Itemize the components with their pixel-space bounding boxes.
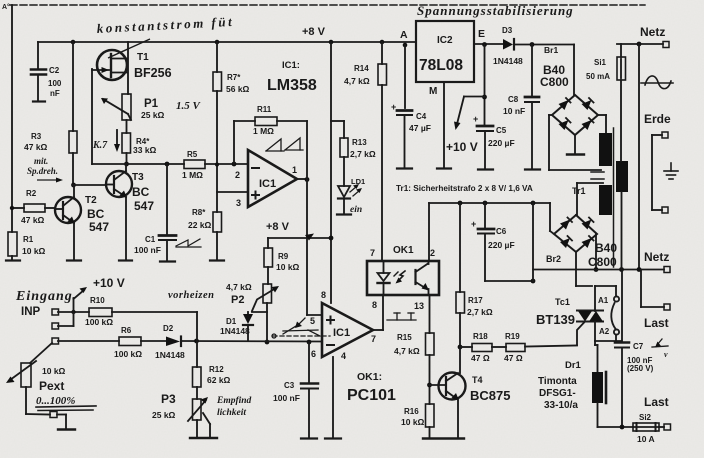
svg-text:Empfind: Empfind <box>216 396 252 406</box>
label OK1: PC101 <box>347 371 396 404</box>
wire primary to mains line <box>621 192 623 269</box>
resistor R6 100k <box>119 337 141 346</box>
label T3 BC547 <box>132 172 154 213</box>
transistor T1 <box>92 42 128 94</box>
svg-text:R10: R10 <box>90 296 105 305</box>
resistor R18 <box>460 344 506 352</box>
wire node E <box>474 42 503 47</box>
wire mid +8V arrow line <box>268 234 333 249</box>
svg-text:C5: C5 <box>496 126 507 135</box>
label IC2 78L08 <box>419 35 463 74</box>
label P2 <box>226 282 252 306</box>
svg-text:IC1:: IC1: <box>282 60 300 71</box>
svg-text:OK1: OK1 <box>393 245 414 256</box>
svg-text:0...100%: 0...100% <box>36 395 75 407</box>
wire IC1a output <box>297 178 307 180</box>
svg-text:BC: BC <box>132 185 150 199</box>
capacitor C2 <box>31 42 46 102</box>
terminal Last upper <box>664 304 670 310</box>
svg-text:E: E <box>478 28 485 40</box>
op-amp IC1b <box>322 303 373 357</box>
transistor T3 <box>106 171 132 198</box>
terminal Netz top <box>663 42 669 48</box>
label R6 <box>114 326 142 359</box>
svg-text:R1: R1 <box>23 235 34 244</box>
svg-text:K.7: K.7 <box>92 140 108 151</box>
svg-text:4,7 kΩ: 4,7 kΩ <box>344 76 370 86</box>
svg-text:1N4148: 1N4148 <box>220 326 250 336</box>
annotation AC sine symbol <box>641 76 673 89</box>
transformer core line <box>613 128 615 267</box>
svg-text:C6: C6 <box>496 227 507 236</box>
diode D3 <box>503 39 574 50</box>
label P3 <box>152 392 176 420</box>
wire T2 emitter to ground stub <box>73 223 75 259</box>
svg-text:Tr1: Sicherheitstrafo 2 x 8 V/: Tr1: Sicherheitstrafo 2 x 8 V/ 1,6 VA <box>396 184 533 193</box>
svg-text:R13: R13 <box>352 138 367 147</box>
svg-text:1: 1 <box>292 165 297 175</box>
wire T3 base <box>73 184 106 186</box>
svg-text:R9: R9 <box>278 252 289 261</box>
svg-text:BC875: BC875 <box>470 388 510 403</box>
wire mains line y=269 <box>533 267 664 272</box>
svg-text:10 kΩ: 10 kΩ <box>22 246 46 256</box>
transformer Tr1 secondary upper winding <box>599 133 612 166</box>
wire supply line corner to Br2 left <box>550 203 554 234</box>
svg-text:+: + <box>473 114 478 124</box>
annotation konstantstrom <box>96 14 234 58</box>
svg-text:220 µF: 220 µF <box>488 240 515 250</box>
svg-text:547: 547 <box>134 199 154 213</box>
svg-text:A°: A° <box>2 3 10 11</box>
svg-text:Tr1: Tr1 <box>572 186 586 196</box>
svg-text:Si1: Si1 <box>594 58 607 67</box>
wire IC1a plus input <box>217 191 248 193</box>
ground stub T4/R16 <box>423 437 464 439</box>
label R10 <box>85 296 113 327</box>
wire R14 to OK1 pin7 <box>381 85 383 261</box>
svg-text:D3: D3 <box>502 26 513 35</box>
label R4 <box>133 137 157 155</box>
wire R7/R8 divider column x=217 <box>216 42 218 72</box>
svg-text:P1: P1 <box>144 98 159 110</box>
svg-text:1 MΩ: 1 MΩ <box>182 170 203 180</box>
svg-text:R5: R5 <box>187 150 198 159</box>
annotation sawtooth doodle near C1 <box>176 239 201 247</box>
label Br1 B40 C800 <box>540 45 569 89</box>
resistor R15 <box>426 333 435 404</box>
annotation arrow K.7 <box>114 130 120 152</box>
label C7 <box>627 342 668 373</box>
svg-text:56 kΩ: 56 kΩ <box>226 84 250 94</box>
svg-text:R18: R18 <box>473 332 488 341</box>
transistor T4 <box>430 347 466 438</box>
svg-text:6: 6 <box>311 349 316 359</box>
wire V+ column x=331 to IC1b pin8 <box>330 42 332 303</box>
LED LD1 <box>337 184 362 215</box>
svg-text:+: + <box>391 102 396 112</box>
svg-text:A1: A1 <box>598 296 609 305</box>
label Si1 <box>586 58 610 81</box>
svg-text:Br2: Br2 <box>546 254 561 264</box>
annotation mit Sp.dreh <box>27 156 63 183</box>
svg-text:+8 V: +8 V <box>302 26 326 38</box>
node dots on +8V rail <box>71 40 408 48</box>
node R7/R8 crossing <box>215 162 219 166</box>
svg-text:47 kΩ: 47 kΩ <box>21 215 45 225</box>
capacitor C6 <box>478 203 535 283</box>
label C8 <box>503 95 525 116</box>
wire mains N column <box>638 44 640 269</box>
label Tc1 BT139 <box>536 297 575 327</box>
svg-text:LD1: LD1 <box>351 177 365 186</box>
label R14 <box>344 64 370 86</box>
annotation hand-drawn thyristor note <box>272 318 330 338</box>
diode D2 <box>166 337 181 347</box>
label C1 <box>134 235 161 255</box>
wire Br1 AC left loop <box>549 115 601 170</box>
wire main input line y=341 <box>58 339 322 345</box>
wire +8V top rail <box>38 41 416 43</box>
label IC1a pins <box>235 165 297 208</box>
label C4 <box>391 102 431 133</box>
wire left input line x=12 <box>11 5 13 232</box>
svg-text:Sp.dreh.: Sp.dreh. <box>27 166 58 176</box>
svg-text:INP: INP <box>21 306 41 318</box>
terminal Pext bottom <box>50 412 57 418</box>
label R11 <box>253 105 274 136</box>
svg-text:100 nF: 100 nF <box>134 245 161 255</box>
op-amp IC1a <box>248 150 297 207</box>
label D2 <box>155 324 185 360</box>
svg-text:nF: nF <box>50 89 60 98</box>
svg-text:4: 4 <box>341 351 346 361</box>
label R19 <box>504 332 523 363</box>
svg-text:220 µF: 220 µF <box>488 138 515 148</box>
label R12 <box>207 365 231 385</box>
wire R17 column <box>459 203 461 292</box>
label R1 <box>22 235 46 256</box>
svg-text:R14: R14 <box>354 64 369 73</box>
svg-text:4,7 kΩ: 4,7 kΩ <box>394 346 420 356</box>
svg-text:IC2: IC2 <box>437 35 453 46</box>
wire x=533 column <box>532 203 534 281</box>
potentiometer P3 <box>188 397 217 438</box>
svg-text:T3: T3 <box>132 172 144 183</box>
label D3 <box>493 26 523 66</box>
label C2 <box>48 66 62 98</box>
svg-text:7: 7 <box>371 334 376 344</box>
svg-text:Eingang: Eingang <box>15 289 73 304</box>
svg-text:10 kΩ: 10 kΩ <box>42 366 66 376</box>
wire Last upper branch <box>641 270 664 308</box>
svg-text:100 kΩ: 100 kΩ <box>85 317 113 327</box>
svg-text:D1: D1 <box>226 317 237 326</box>
label T4 BC875 <box>470 375 510 403</box>
label R8 <box>188 208 212 230</box>
capacitor C3 <box>301 384 318 439</box>
wire lower secondary to Br2 <box>577 183 603 215</box>
svg-text:Timonta: Timonta <box>538 376 577 387</box>
OK1 internal LED <box>378 261 406 295</box>
wire Erde bracket <box>652 135 662 210</box>
svg-text:vorheizen: vorheizen <box>168 290 215 301</box>
potentiometer P2 <box>252 284 279 344</box>
svg-text:47 µF: 47 µF <box>409 123 431 133</box>
svg-text:C8: C8 <box>508 95 519 104</box>
svg-text:C1: C1 <box>145 235 156 244</box>
wire T3 collector <box>125 164 127 171</box>
annotation Empfindlichkeit <box>216 396 252 418</box>
resistor R13 <box>340 138 348 157</box>
transformer core dashes <box>591 172 604 179</box>
svg-text:mit.: mit. <box>34 156 48 166</box>
node C1 top <box>165 162 170 167</box>
svg-text:3: 3 <box>236 198 241 208</box>
svg-text:10 kΩ: 10 kΩ <box>276 262 300 272</box>
wire OK1 pin2 column up to +V line <box>428 203 430 261</box>
ground earth symbol <box>664 163 678 179</box>
label D1 <box>220 317 250 336</box>
svg-text:22 kΩ: 22 kΩ <box>188 220 212 230</box>
OK1 internal phototransistor <box>416 261 430 295</box>
label R18 <box>471 332 490 363</box>
svg-text:R12: R12 <box>209 365 224 374</box>
svg-text:50 mA: 50 mA <box>586 72 610 81</box>
terminal Last lower <box>664 424 671 430</box>
svg-text:Erde: Erde <box>644 112 671 126</box>
svg-text:7: 7 <box>370 248 375 258</box>
wire Br2 bottom to triac A1 <box>576 252 592 286</box>
label R2 <box>21 189 45 225</box>
resistor R10 <box>89 308 112 317</box>
svg-text:Si2: Si2 <box>639 413 652 422</box>
svg-text:1N4148: 1N4148 <box>155 350 185 360</box>
svg-text:62 kΩ: 62 kΩ <box>207 375 231 385</box>
svg-text:R19: R19 <box>505 332 520 341</box>
svg-text:8: 8 <box>372 300 377 310</box>
svg-text:IC1: IC1 <box>259 178 276 190</box>
node R4 bottom / T3 collector <box>124 162 129 167</box>
svg-text:5: 5 <box>310 316 315 326</box>
svg-text:547: 547 <box>89 220 109 234</box>
wire P1 to R4 <box>126 120 128 133</box>
svg-text:R3: R3 <box>31 132 42 141</box>
label LD1 ein <box>350 177 365 215</box>
svg-text:+10 V: +10 V <box>446 140 478 154</box>
svg-text:PC101: PC101 <box>347 387 396 404</box>
wire output bottom <box>598 425 634 430</box>
svg-text:T1: T1 <box>137 52 149 63</box>
svg-text:BT139: BT139 <box>536 312 575 327</box>
svg-text:lichkeit: lichkeit <box>217 408 246 418</box>
capacitor C8 branch <box>525 45 540 170</box>
terminal INP <box>52 309 59 315</box>
svg-text:10 nF: 10 nF <box>503 106 525 116</box>
svg-text:BF256: BF256 <box>134 66 172 80</box>
svg-text:R15: R15 <box>397 333 412 342</box>
svg-text:v: v <box>664 350 668 359</box>
svg-text:B40: B40 <box>595 241 617 255</box>
label IC1b pins <box>310 290 376 361</box>
label T2 BC547 <box>85 195 109 234</box>
svg-text:47 Ω: 47 Ω <box>471 353 490 363</box>
potentiometer P1 <box>101 94 131 120</box>
svg-text:2: 2 <box>235 170 240 180</box>
svg-text:100 nF: 100 nF <box>273 393 300 403</box>
resistor R17 2.7k <box>456 292 465 313</box>
annotation sawtooth symbols <box>266 138 303 151</box>
transistor T2 <box>55 197 81 224</box>
svg-text:R17: R17 <box>468 296 483 305</box>
wire Netz top terminal <box>617 42 663 47</box>
label R16 <box>401 407 425 427</box>
svg-text:47 kΩ: 47 kΩ <box>24 142 48 152</box>
svg-text:R11: R11 <box>257 105 272 114</box>
capacitor C7 <box>615 270 629 428</box>
label R7 <box>226 73 250 94</box>
svg-text:T4: T4 <box>472 375 483 385</box>
label Br2 B40 C800 <box>546 241 617 269</box>
wire node A column to C4 <box>404 45 406 108</box>
border top dashed line <box>10 4 645 6</box>
potentiometer Pext <box>6 343 52 415</box>
voltage regulator IC2 box <box>416 21 474 82</box>
annotation C7 arrow mark <box>652 339 668 348</box>
svg-text:C3: C3 <box>284 381 295 390</box>
annotation +10V arrow (input) <box>74 287 88 299</box>
svg-text:10 kΩ: 10 kΩ <box>401 417 425 427</box>
svg-text:ein: ein <box>350 205 362 215</box>
svg-text:D2: D2 <box>163 324 174 333</box>
svg-text:T2: T2 <box>85 195 97 206</box>
optocoupler OK1 box <box>367 261 439 295</box>
ground input <box>57 415 75 430</box>
wire R3 column x=73 <box>72 42 74 131</box>
label A1 A2 <box>598 296 610 336</box>
svg-text:1N4148: 1N4148 <box>493 56 523 66</box>
terminal Erde top <box>662 132 668 138</box>
label R15 <box>394 333 420 356</box>
svg-text:13: 13 <box>414 301 424 311</box>
terminal input 2 <box>52 323 59 329</box>
svg-text:LM358: LM358 <box>267 77 317 94</box>
annotation pulse waveform <box>387 313 416 320</box>
capacitor C4 <box>397 111 412 169</box>
svg-text:IC1: IC1 <box>333 327 350 339</box>
label R5 1M <box>182 150 203 180</box>
resistor R5 1M <box>184 160 205 169</box>
svg-text:BC: BC <box>87 207 105 221</box>
resistor R7* <box>213 72 222 91</box>
svg-text:C800: C800 <box>588 255 617 269</box>
svg-text:C2: C2 <box>49 66 60 75</box>
terminal Erde bottom <box>662 207 668 213</box>
bridge rectifier Br1 <box>552 45 598 136</box>
svg-text:Netz: Netz <box>640 25 665 39</box>
svg-text:R6: R6 <box>121 326 132 335</box>
resistor R16 <box>426 404 435 438</box>
wire T2 collector <box>73 185 75 197</box>
node junction T2 collector / T3 base <box>71 183 76 188</box>
svg-text:P2: P2 <box>231 294 244 306</box>
svg-text:Pext: Pext <box>39 379 64 393</box>
resistor R12 62k <box>193 367 202 387</box>
resistor R19 <box>506 344 577 352</box>
label T1 BF256 <box>134 52 172 80</box>
label Dr1 Timonta <box>538 360 582 411</box>
label R13 <box>350 138 376 159</box>
svg-text:A: A <box>400 29 408 41</box>
label C5 <box>473 114 515 148</box>
wire node line y=164 <box>92 163 184 165</box>
wire IC1b output to OK1 pin8 <box>373 295 383 330</box>
label Si2 <box>637 413 655 444</box>
terminal Netz bottom <box>664 267 670 273</box>
svg-text:25 kΩ: 25 kΩ <box>141 110 165 120</box>
diode D1 <box>243 312 267 341</box>
capacitor C1 <box>159 164 176 262</box>
svg-text:33-10/a: 33-10/a <box>544 400 578 411</box>
svg-text:100 kΩ: 100 kΩ <box>114 349 142 359</box>
svg-text:P3: P3 <box>161 392 176 406</box>
svg-text:OK1:: OK1: <box>357 371 382 383</box>
wire Br1 minus stub <box>567 135 584 155</box>
svg-text:+: + <box>471 219 476 229</box>
svg-text:C7: C7 <box>633 342 644 351</box>
svg-text:R7*: R7* <box>227 73 241 82</box>
resistor R3 <box>69 131 77 153</box>
wire Br2 right vertex down <box>595 234 597 269</box>
fuse Si2 <box>633 423 664 431</box>
svg-text:78L08: 78L08 <box>419 57 463 74</box>
svg-text:2: 2 <box>430 248 435 258</box>
svg-text:1 MΩ: 1 MΩ <box>253 126 274 136</box>
svg-text:+8 V: +8 V <box>266 221 290 233</box>
svg-text:C4: C4 <box>416 112 427 121</box>
svg-text:M: M <box>429 86 437 97</box>
svg-text:(250 V): (250 V) <box>627 364 654 373</box>
resistor R1 <box>6 232 20 261</box>
svg-text:4,7 kΩ: 4,7 kΩ <box>226 282 252 292</box>
svg-text:R16: R16 <box>404 407 419 416</box>
svg-text:2,7 kΩ: 2,7 kΩ <box>467 307 493 317</box>
svg-text:2,7 kΩ: 2,7 kΩ <box>350 149 376 159</box>
resistor R11 feedback loop <box>234 117 307 164</box>
label Pext <box>36 366 75 407</box>
wire IC1a output column x=307 <box>306 121 308 315</box>
svg-text:33 kΩ: 33 kΩ <box>133 145 157 155</box>
svg-text:C800: C800 <box>540 75 569 89</box>
fuse Si1 <box>617 44 626 161</box>
label OK1 pins <box>370 245 435 311</box>
wire R10 input row y=312 <box>58 310 197 341</box>
label R17 <box>467 296 493 317</box>
label IC1: LM358 <box>267 60 317 94</box>
svg-text:Last: Last <box>644 316 669 330</box>
wire Br1 AC right <box>598 115 606 133</box>
resistor R8* <box>213 212 222 232</box>
label R9 <box>276 252 300 272</box>
transformer Tr1 primary winding <box>616 161 628 192</box>
resistor R4* <box>122 133 131 153</box>
svg-text:Netz: Netz <box>644 250 669 264</box>
LED branch: wire from V+ <box>331 121 344 138</box>
label C3 <box>273 381 300 403</box>
svg-text:47 Ω: 47 Ω <box>504 353 523 363</box>
svg-text:Br1: Br1 <box>544 45 558 55</box>
resistor R2 <box>10 204 55 212</box>
